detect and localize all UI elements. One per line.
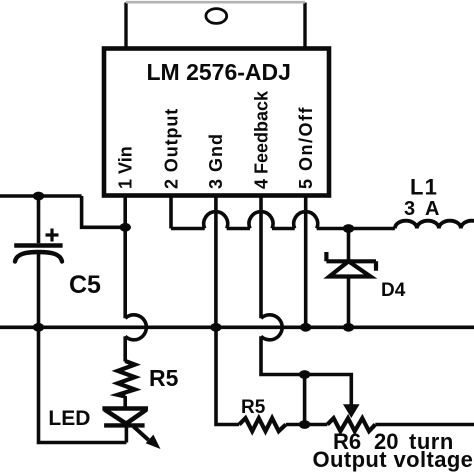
wire C5 bottom lead <box>37 253 41 327</box>
wire hop over pin5 <box>294 212 318 229</box>
junction ground rail / C5 <box>33 323 44 332</box>
IC U1 body LM2576-ADJ <box>104 49 329 196</box>
svg-text:1 Vin: 1 Vin <box>116 146 136 189</box>
wire pin1 to R5 <box>123 336 127 361</box>
plus sign <box>46 229 59 242</box>
wire FB to wiper <box>305 375 352 405</box>
wire pin1 vertical upper <box>123 196 127 318</box>
svg-text:R5: R5 <box>149 365 179 391</box>
wire D4 bottom lead <box>347 277 351 328</box>
junction divider tap <box>299 420 310 429</box>
wire pin2 drop <box>169 196 173 229</box>
svg-text:C5: C5 <box>69 271 101 299</box>
wire D4 top lead <box>347 229 351 262</box>
wire hop over pin3 <box>204 212 228 229</box>
potentiometer R6 <box>327 418 375 431</box>
svg-text:R5: R5 <box>241 397 266 418</box>
wire step from rail to pin1 <box>82 196 126 227</box>
svg-text:3 Gnd: 3 Gnd <box>206 133 226 189</box>
wire gnd to bottom divider <box>216 327 239 424</box>
wire hop of pin1 over ground rail <box>125 315 146 340</box>
junction top rail / C5 <box>33 192 44 201</box>
wire C5 top lead <box>37 196 41 243</box>
wire switch node horizontal <box>171 227 395 231</box>
junction FB node <box>299 370 310 379</box>
LED D? anode bar <box>102 406 148 410</box>
LED triangle <box>105 410 147 424</box>
wire pin4 vertical lower <box>261 336 305 374</box>
capacitor C5 plus plate <box>14 243 62 248</box>
capacitor C5 curved plate <box>15 252 62 262</box>
wire hop of pin4 over ground rail <box>261 315 282 340</box>
svg-text:3 A: 3 A <box>404 198 442 220</box>
wire top input rail <box>0 194 82 198</box>
svg-text:2 Output: 2 Output <box>162 108 182 189</box>
wire LED return left <box>39 327 127 442</box>
wire LED cathode to corner <box>125 425 129 442</box>
LED cathode bar <box>104 423 145 427</box>
wire ground rail <box>0 325 474 329</box>
resistor R5 (LED series) <box>118 361 135 397</box>
svg-text:L1: L1 <box>410 175 438 200</box>
svg-text:LM 2576-ADJ: LM 2576-ADJ <box>147 59 291 85</box>
diode D4 triangle <box>329 261 370 276</box>
wire output after R6 <box>375 423 474 427</box>
svg-text:Output voltage: Output voltage <box>313 447 474 472</box>
wire pin3 vertical <box>214 196 218 327</box>
wire FB node down <box>303 375 307 425</box>
svg-text:4 Feedback: 4 Feedback <box>252 90 272 189</box>
svg-text:5 On/Off: 5 On/Off <box>296 106 316 189</box>
IC U1 tab (TO-220 top) <box>126 2 305 50</box>
inductor L1 <box>395 221 474 229</box>
junction ground rail / pin5 <box>300 323 311 332</box>
resistor R5 (divider bottom) <box>239 418 286 431</box>
diode D4 zener bar <box>326 252 376 271</box>
LED emission arrow <box>134 427 149 441</box>
wire pin5 vertical <box>304 196 308 327</box>
junction switch node / D4 <box>343 224 354 233</box>
wire R5 to LED <box>123 396 127 409</box>
svg-text:LED: LED <box>48 407 90 430</box>
R6 wiper arrowhead <box>343 404 360 418</box>
wire hop over pin4 <box>249 212 273 229</box>
svg-text:D4: D4 <box>381 280 406 301</box>
junction ground rail / pin3 <box>210 323 221 332</box>
wire between R5 and R6 <box>286 423 328 427</box>
wire pin4 vertical upper <box>259 196 263 318</box>
junction pin1 / step wire <box>120 223 131 232</box>
mounting hole <box>206 9 227 24</box>
junction ground rail / D4 <box>343 323 354 332</box>
